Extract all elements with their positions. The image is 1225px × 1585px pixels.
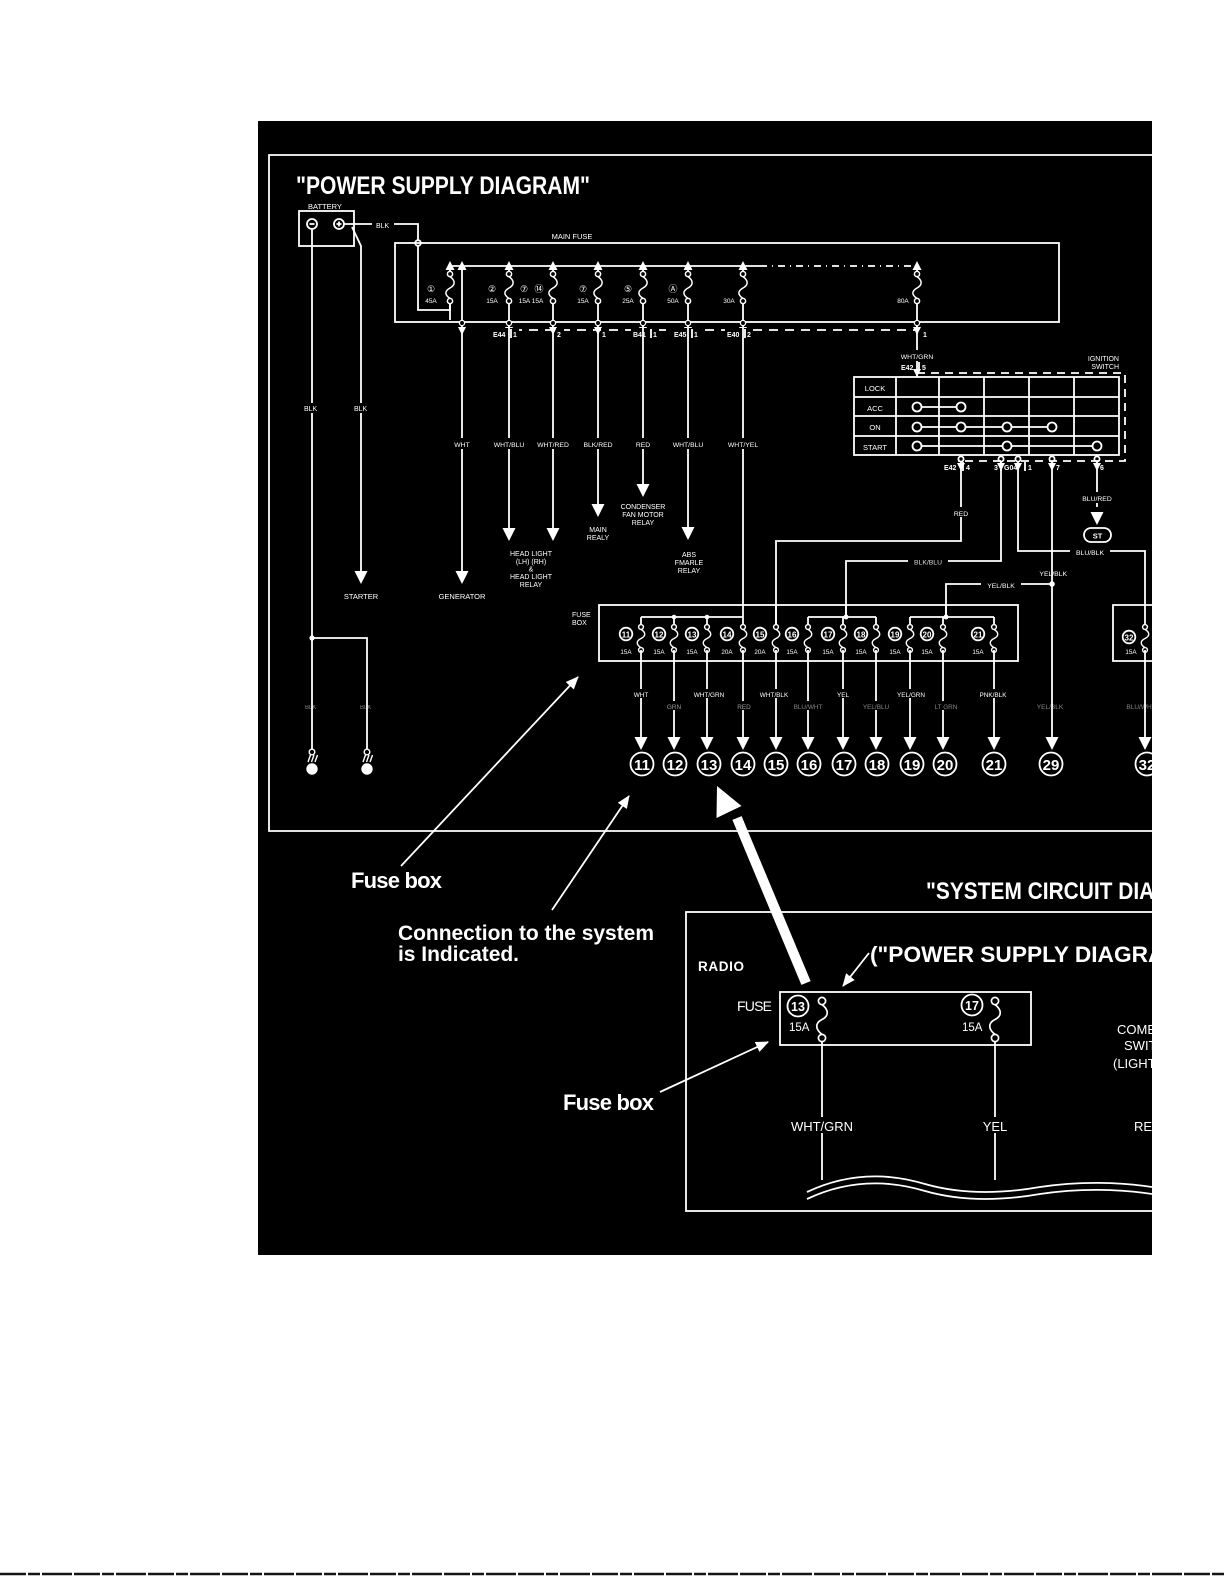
fuse output wires to circled terminals bbox=[641, 650, 994, 737]
label CONDENSER FAN MOTOR RELAY bbox=[621, 504, 666, 527]
svg-text:13: 13 bbox=[688, 631, 697, 640]
svg-text:MAIN: MAIN bbox=[589, 527, 607, 534]
node 19 bbox=[901, 753, 924, 776]
svg-text:15A 15A: 15A 15A bbox=[519, 298, 544, 305]
svg-text:19: 19 bbox=[891, 631, 900, 640]
arrow to generator bbox=[456, 571, 469, 584]
label LT GRN bbox=[926, 701, 966, 710]
svg-text:11: 11 bbox=[622, 631, 631, 640]
battery bbox=[299, 211, 354, 246]
arrow to starter bbox=[355, 571, 368, 584]
svg-text:20A: 20A bbox=[754, 649, 766, 656]
callout arrow to node 11 bbox=[552, 796, 629, 910]
svg-text:HEAD LIGHT: HEAD LIGHT bbox=[510, 574, 553, 581]
svg-text:E42: E42 bbox=[901, 365, 914, 372]
svg-text:(LH) (RH): (LH) (RH) bbox=[516, 559, 546, 566]
svg-text:BLK: BLK bbox=[305, 705, 316, 711]
node 13 bbox=[698, 753, 721, 776]
svg-text:SWITCH: SWITCH bbox=[1091, 364, 1119, 371]
arrow to ABS relay bbox=[682, 527, 695, 540]
svg-text:BLK: BLK bbox=[376, 223, 390, 230]
node 15 bbox=[765, 753, 788, 776]
svg-text:15A: 15A bbox=[822, 649, 834, 656]
svg-text:BLK: BLK bbox=[360, 705, 371, 711]
wire BLK/RED down to main relay bbox=[597, 326, 599, 504]
svg-text:WHT/GRN: WHT/GRN bbox=[901, 354, 934, 361]
wire BLK/BLU ignition pin3 to bus B bbox=[846, 462, 1001, 617]
svg-text:15A: 15A bbox=[972, 649, 984, 656]
wire YEL/BLK ignition pin7 down bbox=[1051, 462, 1053, 737]
label WHT/GRN bbox=[688, 689, 730, 698]
label WHT bbox=[628, 689, 654, 698]
svg-text:3: 3 bbox=[994, 465, 998, 472]
label HEAD LIGHT (LH)(RH) & HEAD LIGHT RELAY bbox=[510, 551, 553, 589]
fuse 2 15A bbox=[505, 271, 513, 303]
svg-text:80A: 80A bbox=[897, 298, 909, 305]
svg-text:15A: 15A bbox=[921, 649, 933, 656]
svg-text:16: 16 bbox=[801, 757, 818, 774]
svg-text:17: 17 bbox=[824, 631, 833, 640]
fuse 1 45A bbox=[446, 271, 454, 303]
svg-text:YEL/BLK: YEL/BLK bbox=[1039, 571, 1067, 578]
fuse box 2 bbox=[1113, 605, 1152, 661]
svg-text:6: 6 bbox=[1100, 465, 1104, 472]
arrow to head light relay bbox=[547, 528, 560, 541]
wire continuation squiggle upper bbox=[807, 1176, 1152, 1192]
node 17 bbox=[833, 753, 856, 776]
label YEL/BLU bbox=[855, 701, 897, 710]
svg-text:YEL: YEL bbox=[983, 1119, 1008, 1134]
svg-text:4: 4 bbox=[966, 465, 970, 472]
svg-text:E40: E40 bbox=[727, 332, 740, 339]
svg-text:13: 13 bbox=[701, 757, 718, 774]
wire WHT/BLU down to ABS relay bbox=[687, 326, 689, 527]
svg-text:18: 18 bbox=[857, 631, 866, 640]
fuse 17 15A (system) bbox=[962, 995, 983, 1016]
svg-text:WHT/RED: WHT/RED bbox=[537, 442, 569, 449]
label MAIN REALY bbox=[587, 527, 610, 542]
svg-text:2: 2 bbox=[747, 332, 751, 339]
fuse output wires to box bottom bbox=[450, 304, 917, 320]
svg-text:15A: 15A bbox=[486, 298, 498, 305]
svg-text:15A: 15A bbox=[620, 649, 632, 656]
svg-text:IGNITION: IGNITION bbox=[1088, 356, 1119, 363]
svg-text:FMARLE: FMARLE bbox=[675, 560, 704, 567]
fuse 18 15A bbox=[872, 625, 880, 653]
battery negative terminal bbox=[307, 219, 317, 229]
svg-text:FUSE: FUSE bbox=[737, 998, 772, 1014]
svg-text:HEAD LIGHT: HEAD LIGHT bbox=[510, 551, 553, 558]
svg-text:Fuse box: Fuse box bbox=[563, 1090, 655, 1115]
node 12 bbox=[664, 753, 687, 776]
svg-text:1: 1 bbox=[1028, 465, 1032, 472]
ignition switch column lines bbox=[896, 377, 1074, 455]
svg-text:WHT: WHT bbox=[454, 442, 469, 449]
arrow to head light bbox=[503, 528, 516, 541]
svg-text:14: 14 bbox=[723, 631, 732, 640]
label GRN bbox=[662, 701, 686, 710]
fuse 3 15A 15A bbox=[549, 271, 557, 303]
battery positive terminal bbox=[334, 219, 344, 229]
svg-text:12: 12 bbox=[655, 631, 664, 640]
svg-text:19: 19 bbox=[904, 757, 921, 774]
arrow to condenser fan motor relay bbox=[637, 484, 650, 497]
svg-text:15: 15 bbox=[756, 631, 765, 640]
wire WHT/GRN (system) bbox=[821, 1041, 823, 1180]
svg-text:ACC: ACC bbox=[867, 404, 883, 413]
svg-text:BLK: BLK bbox=[304, 406, 318, 413]
svg-text:FAN MOTOR: FAN MOTOR bbox=[622, 512, 663, 519]
label YEL/GRN bbox=[890, 689, 932, 698]
svg-text:YEL/GRN: YEL/GRN bbox=[897, 692, 925, 699]
svg-text:⑭: ⑭ bbox=[534, 284, 543, 294]
svg-text:15A: 15A bbox=[786, 649, 798, 656]
fuse box bbox=[599, 605, 1018, 661]
arrow to ST bbox=[1091, 512, 1104, 525]
START row contacts bbox=[913, 442, 922, 451]
bus B fuses 16-18 bbox=[808, 617, 876, 624]
arrows to circuit terminals bbox=[635, 737, 648, 750]
wire YEL/BLK branch to bus C bbox=[946, 584, 1052, 617]
wire WHT/RED down to head light relay bbox=[552, 326, 554, 528]
label WHT/BLK bbox=[753, 689, 795, 698]
svg-text:15: 15 bbox=[768, 757, 785, 774]
svg-text:YEL: YEL bbox=[837, 692, 850, 699]
svg-text:START: START bbox=[863, 443, 887, 452]
svg-text:②: ② bbox=[488, 284, 496, 294]
node 14 bbox=[732, 753, 755, 776]
wire WHT tap bbox=[461, 266, 463, 320]
arrow from POWER SUPPLY label to fuse bbox=[843, 953, 869, 986]
svg-text:①: ① bbox=[427, 284, 435, 294]
svg-text:WHT/YEL: WHT/YEL bbox=[728, 442, 758, 449]
node ST bbox=[1084, 528, 1111, 542]
svg-text:⑤: ⑤ bbox=[624, 284, 632, 294]
svg-text:1: 1 bbox=[694, 332, 698, 339]
wire WHT/GRN down to ignition switch bbox=[916, 326, 918, 377]
svg-text:20A: 20A bbox=[721, 649, 733, 656]
svg-text:15A: 15A bbox=[855, 649, 867, 656]
svg-text:15A: 15A bbox=[577, 298, 589, 305]
wire WHT/YEL down to fuse box bus A bbox=[742, 326, 744, 617]
label BLK starter wire bbox=[352, 403, 372, 413]
svg-text:RED: RED bbox=[954, 511, 968, 518]
svg-text:⑦: ⑦ bbox=[520, 284, 528, 294]
svg-text:17: 17 bbox=[836, 757, 853, 774]
connector label E40 2 bbox=[725, 328, 753, 339]
svg-text:YEL/BLK: YEL/BLK bbox=[1037, 704, 1064, 711]
bus tap arrows bbox=[446, 261, 455, 270]
svg-text:BLU/RED: BLU/RED bbox=[1082, 496, 1112, 503]
svg-text:14: 14 bbox=[735, 757, 752, 774]
label PNK/BLK bbox=[972, 689, 1014, 698]
svg-text:16: 16 bbox=[788, 631, 797, 640]
svg-text:1: 1 bbox=[923, 332, 927, 339]
main fuse box bbox=[395, 243, 1059, 322]
fuse box 2 bus bbox=[1144, 607, 1146, 624]
svg-text:CONDENSER: CONDENSER bbox=[621, 504, 666, 511]
svg-text:MAIN FUSE: MAIN FUSE bbox=[552, 232, 593, 241]
wire RED feed into fuse 15 (crosses box top) bbox=[775, 605, 777, 624]
ignition bottom pin 3 bbox=[998, 456, 1003, 461]
fuse 19 15A bbox=[906, 625, 914, 653]
svg-text:15A: 15A bbox=[889, 649, 901, 656]
fuse 16 15A bbox=[804, 625, 812, 653]
svg-text:17: 17 bbox=[965, 999, 979, 1013]
svg-text:15A: 15A bbox=[1125, 649, 1137, 656]
svg-text:ABS: ABS bbox=[682, 552, 696, 559]
svg-text:FUSE: FUSE bbox=[572, 612, 591, 619]
node 20 bbox=[934, 753, 957, 776]
fuse 6 50A bbox=[684, 271, 692, 303]
fuse 11 15A bbox=[637, 625, 645, 653]
fuse 13 15A (system) bbox=[788, 996, 809, 1017]
svg-text:WHT/BLK: WHT/BLK bbox=[760, 692, 789, 699]
node 21 bbox=[983, 753, 1006, 776]
wire continuation squiggle lower bbox=[807, 1183, 1152, 1199]
svg-text:&: & bbox=[529, 567, 534, 574]
wire RED down to condenser fan motor relay bbox=[642, 326, 644, 484]
wire RED ignition pin4 to fuse 15 bbox=[776, 462, 961, 624]
svg-text:BATTERY: BATTERY bbox=[308, 202, 342, 211]
svg-text:15A: 15A bbox=[789, 1022, 810, 1034]
svg-text:RADIO: RADIO bbox=[698, 959, 744, 974]
terminal arrows under box bbox=[458, 327, 466, 335]
svg-text:REALY: REALY bbox=[587, 535, 610, 542]
svg-text:WHT/GRN: WHT/GRN bbox=[791, 1119, 853, 1134]
connector label E45 1 bbox=[672, 328, 700, 339]
callout arrow to fuse box bbox=[401, 677, 578, 866]
svg-text:13: 13 bbox=[791, 1000, 805, 1014]
svg-text:ST: ST bbox=[1093, 532, 1103, 541]
bus A fuses 11-14 bbox=[641, 617, 743, 624]
node 29 bbox=[1040, 753, 1063, 776]
svg-text:15A: 15A bbox=[962, 1022, 983, 1034]
fuse 17 15A bbox=[839, 625, 847, 653]
svg-text:Ⓐ: Ⓐ bbox=[668, 284, 677, 294]
wire battery plus to main fuse (BLK) bbox=[344, 223, 372, 225]
ON row contacts bbox=[913, 423, 922, 432]
system circuit diagram box bbox=[686, 912, 1166, 1211]
node 16 bbox=[798, 753, 821, 776]
svg-text:21: 21 bbox=[986, 757, 1003, 774]
svg-text:5: 5 bbox=[922, 365, 926, 372]
svg-text:PNK/BLK: PNK/BLK bbox=[980, 692, 1008, 699]
svg-text:Connection to the system: Connection to the system bbox=[398, 922, 654, 945]
svg-text:E44: E44 bbox=[493, 332, 506, 339]
node ground branch bbox=[309, 635, 314, 640]
ground G2 bbox=[362, 749, 373, 774]
ignition switch row lines bbox=[854, 397, 1119, 436]
riser wires bus to fuses bbox=[450, 266, 917, 271]
svg-text:GRN: GRN bbox=[667, 704, 682, 711]
wire WHT down to generator bbox=[461, 326, 463, 571]
svg-text:Fuse box: Fuse box bbox=[351, 868, 443, 893]
svg-text:1: 1 bbox=[513, 332, 517, 339]
node main fuse feed bbox=[415, 240, 421, 246]
wire YEL/BLK feed into bus C bbox=[945, 605, 947, 617]
svg-text:BLU/WHT: BLU/WHT bbox=[794, 704, 823, 711]
ignition bottom pin 7 bbox=[1049, 456, 1054, 461]
svg-text:RELAY: RELAY bbox=[520, 582, 543, 589]
box bottom terminals bbox=[459, 320, 919, 325]
svg-text:STARTER: STARTER bbox=[344, 592, 379, 601]
svg-text:29: 29 bbox=[1043, 757, 1060, 774]
wire battery minus to ground bbox=[311, 229, 313, 749]
wire BLU/WHT to node 32 bbox=[1144, 650, 1146, 737]
ignition bottom pin 4 bbox=[958, 456, 963, 461]
svg-text:⑦: ⑦ bbox=[579, 284, 587, 294]
svg-text:20: 20 bbox=[923, 631, 932, 640]
label RED bbox=[732, 701, 756, 710]
dashed line under main fuse box bbox=[497, 329, 918, 331]
svg-text:B41: B41 bbox=[633, 332, 646, 339]
svg-text:12: 12 bbox=[667, 757, 684, 774]
main fuse bus bbox=[450, 265, 760, 267]
wire feed down to fuse 1 bbox=[418, 246, 450, 310]
thick arrow to node 13 bbox=[737, 818, 806, 983]
ignition switch body bbox=[854, 377, 1119, 455]
svg-text:2: 2 bbox=[557, 332, 561, 339]
wire YEL (system) bbox=[994, 1041, 996, 1180]
svg-text:15A: 15A bbox=[653, 649, 665, 656]
fuse 15 20A bbox=[772, 625, 780, 653]
svg-text:WHT/GRN: WHT/GRN bbox=[694, 692, 725, 699]
svg-text:is Indicated.: is Indicated. bbox=[398, 943, 519, 966]
svg-text:YEL/BLK: YEL/BLK bbox=[987, 583, 1015, 590]
wire BLU/RED ignition pin6 to ST bbox=[1096, 462, 1098, 507]
system fuse bracket bbox=[780, 992, 1031, 1045]
svg-text:("POWER SUPPLY DIAGRAM": ("POWER SUPPLY DIAGRAM" bbox=[870, 942, 1194, 967]
svg-text:BLK: BLK bbox=[354, 406, 368, 413]
ACC row contacts bbox=[913, 403, 922, 412]
svg-text:1: 1 bbox=[653, 332, 657, 339]
arrow to node 32 bbox=[1139, 737, 1152, 750]
node YEL/BLK branch bbox=[1049, 581, 1055, 587]
svg-text:LT GRN: LT GRN bbox=[935, 704, 958, 711]
fuse 32 15A bbox=[1141, 625, 1149, 653]
wire BLU/BLK ignition pin G04-1 to fuse box 2 bbox=[1018, 462, 1145, 607]
fuse 5 25A bbox=[639, 271, 647, 303]
svg-text:LOCK: LOCK bbox=[865, 384, 885, 393]
svg-text:BLK/BLU: BLK/BLU bbox=[914, 560, 942, 567]
svg-text:50A: 50A bbox=[667, 298, 679, 305]
callout arrow to system fuse bracket bbox=[660, 1042, 768, 1092]
svg-text:1: 1 bbox=[602, 332, 606, 339]
svg-text:WHT: WHT bbox=[634, 692, 649, 699]
svg-text:WHT/BLU: WHT/BLU bbox=[494, 442, 525, 449]
ignition switch dashed outline bbox=[917, 373, 1125, 461]
svg-text:RED: RED bbox=[636, 442, 650, 449]
svg-text:E45: E45 bbox=[674, 332, 687, 339]
fuse 8 80A bbox=[913, 271, 921, 303]
fuse 14 20A bbox=[739, 625, 747, 653]
svg-text:ON: ON bbox=[869, 423, 880, 432]
power supply diagram frame bbox=[269, 155, 1152, 831]
svg-text:RED: RED bbox=[737, 704, 751, 711]
wire WHT/BLU down to head light bbox=[508, 326, 510, 528]
label ABS FAILSAFE RELAY bbox=[675, 552, 704, 575]
fuse 21 15A bbox=[990, 625, 998, 653]
svg-text:25A: 25A bbox=[622, 298, 634, 305]
fuse 12 15A bbox=[670, 625, 678, 653]
bus C fuses 19-21 bbox=[910, 617, 994, 624]
node 32 bbox=[1136, 753, 1159, 776]
connector label 2 bbox=[556, 328, 564, 339]
wire branch to second ground bbox=[312, 638, 367, 749]
arrow to main relay bbox=[592, 504, 605, 517]
bottom page rule bbox=[0, 1573, 1225, 1575]
node 18 bbox=[866, 753, 889, 776]
connector label 1 bbox=[601, 328, 609, 339]
label BLK ground wire bbox=[303, 403, 323, 413]
svg-text:21: 21 bbox=[974, 631, 983, 640]
wire BLK/BLU feed into bus B bbox=[845, 605, 847, 617]
svg-text:30A: 30A bbox=[723, 298, 735, 305]
svg-text:20: 20 bbox=[937, 757, 954, 774]
fuse 7 30A bbox=[739, 271, 747, 303]
svg-text:BOX: BOX bbox=[572, 620, 587, 627]
svg-text:YEL/BLU: YEL/BLU bbox=[863, 704, 890, 711]
svg-text:BLU/WHT: BLU/WHT bbox=[1126, 704, 1155, 711]
svg-text:WHT/BLU: WHT/BLU bbox=[673, 442, 704, 449]
arrow to circuit 29 bbox=[1046, 737, 1059, 750]
svg-text:E42: E42 bbox=[944, 465, 957, 472]
svg-text:RELAY: RELAY bbox=[678, 568, 701, 575]
svg-text:BLU/BLK: BLU/BLK bbox=[1076, 550, 1104, 557]
node 11 bbox=[631, 753, 654, 776]
label BLU/WHT bbox=[787, 701, 829, 710]
svg-text:18: 18 bbox=[869, 757, 886, 774]
svg-text:11: 11 bbox=[634, 757, 650, 774]
svg-text:32: 32 bbox=[1125, 634, 1134, 643]
ignition bottom pin 6 bbox=[1094, 456, 1099, 461]
black panel bbox=[258, 121, 1152, 1255]
label YEL bbox=[830, 689, 855, 698]
svg-text:RELAY: RELAY bbox=[632, 520, 655, 527]
wire battery to starter bbox=[352, 227, 361, 571]
svg-text:7: 7 bbox=[1056, 465, 1060, 472]
svg-text:"POWER SUPPLY DIAGRAM": "POWER SUPPLY DIAGRAM" bbox=[296, 172, 590, 200]
fuse 4 15A bbox=[594, 271, 602, 303]
svg-text:BLK/RED: BLK/RED bbox=[583, 442, 612, 449]
connector label 1 (80A) bbox=[922, 328, 930, 339]
svg-text:45A: 45A bbox=[425, 298, 437, 305]
connector label E44 1 bbox=[491, 328, 519, 339]
fuse 13 15A bbox=[703, 625, 711, 653]
svg-text:GENERATOR: GENERATOR bbox=[439, 592, 486, 601]
svg-text:G04: G04 bbox=[1004, 465, 1017, 472]
connector label B41 1 bbox=[631, 328, 659, 339]
ignition bottom pin G04-1 bbox=[1015, 456, 1020, 461]
fuse 20 15A bbox=[939, 625, 947, 653]
svg-text:15A: 15A bbox=[686, 649, 698, 656]
ground G1 bbox=[307, 749, 318, 774]
